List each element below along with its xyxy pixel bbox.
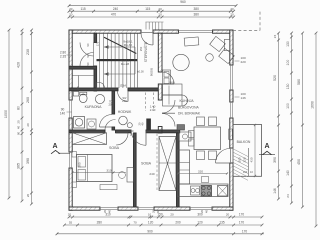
svg-text:KUPAONA: KUPAONA — [85, 105, 103, 109]
svg-text:20: 20 — [26, 194, 30, 198]
svg-text:170: 170 — [242, 229, 248, 233]
svg-text:HODNIK: HODNIK — [118, 110, 132, 114]
svg-text:450: 450 — [297, 159, 301, 165]
svg-text:140: 140 — [60, 112, 66, 116]
svg-text:390: 390 — [273, 157, 277, 163]
svg-text:170: 170 — [239, 221, 245, 225]
svg-text:175: 175 — [76, 86, 80, 91]
svg-text:200: 200 — [175, 221, 181, 225]
svg-text:70: 70 — [133, 221, 137, 225]
svg-text:20: 20 — [69, 13, 73, 17]
svg-text:260: 260 — [26, 97, 30, 103]
svg-text:170: 170 — [239, 213, 245, 217]
svg-text:280: 280 — [78, 162, 82, 167]
svg-text:BALKON: BALKON — [237, 140, 251, 144]
svg-text:390: 390 — [26, 158, 30, 164]
svg-text:24: 24 — [273, 35, 277, 39]
svg-text:20: 20 — [26, 123, 30, 127]
svg-text:360: 360 — [238, 157, 242, 162]
svg-text:310: 310 — [106, 169, 111, 173]
svg-text:200: 200 — [122, 99, 127, 103]
svg-text:BLAGOVONA: BLAGOVONA — [178, 106, 200, 110]
svg-text:240: 240 — [149, 172, 154, 176]
svg-text:80: 80 — [17, 106, 21, 110]
svg-text:310: 310 — [105, 213, 111, 217]
svg-text:DN. BORAVAK: DN. BORAVAK — [178, 112, 201, 116]
svg-text:120: 120 — [197, 221, 203, 225]
svg-text:90: 90 — [17, 132, 21, 136]
svg-text:2.00: 2.00 — [150, 108, 156, 112]
svg-text:100: 100 — [286, 60, 290, 66]
svg-text:20: 20 — [170, 213, 174, 217]
svg-text:IZBA: IZBA — [120, 84, 126, 88]
svg-text:420: 420 — [17, 62, 21, 68]
svg-text:90/205: 90/205 — [150, 67, 154, 76]
svg-text:40: 40 — [17, 126, 21, 130]
svg-text:20: 20 — [17, 120, 21, 124]
svg-text:20: 20 — [226, 213, 230, 217]
svg-text:SOBA: SOBA — [109, 146, 120, 150]
svg-text:146: 146 — [273, 188, 277, 194]
svg-text:10: 10 — [148, 213, 152, 217]
svg-text:115: 115 — [145, 7, 150, 11]
svg-text:Ru.28: Ru.28 — [121, 62, 130, 66]
svg-text:135: 135 — [219, 221, 225, 225]
svg-text:1690: 1690 — [311, 101, 315, 109]
svg-text:130: 130 — [286, 83, 290, 89]
svg-text:175: 175 — [96, 41, 100, 46]
svg-text:20: 20 — [230, 13, 234, 17]
svg-text:960: 960 — [169, 81, 174, 85]
svg-text:100: 100 — [286, 103, 290, 109]
svg-text:2.35: 2.35 — [60, 55, 66, 59]
svg-text:A: A — [264, 143, 269, 150]
svg-text:900: 900 — [147, 229, 153, 233]
svg-text:280: 280 — [97, 221, 103, 225]
svg-text:300: 300 — [197, 213, 203, 217]
svg-text:250: 250 — [139, 46, 143, 51]
svg-text:20: 20 — [69, 7, 73, 11]
svg-text:KUHINJA: KUHINJA — [180, 99, 195, 103]
svg-text:24: 24 — [286, 194, 290, 198]
svg-text:1000: 1000 — [4, 110, 8, 118]
svg-text:130: 130 — [286, 41, 290, 47]
svg-text:380: 380 — [194, 7, 200, 11]
svg-text:20: 20 — [158, 13, 162, 17]
svg-text:55: 55 — [69, 221, 73, 225]
svg-text:220: 220 — [241, 60, 246, 64]
svg-text:320: 320 — [198, 169, 203, 173]
svg-text:Ru.30: Ru.30 — [124, 43, 133, 47]
svg-text:470: 470 — [111, 13, 117, 17]
svg-text:520: 520 — [273, 75, 277, 81]
svg-text:115: 115 — [81, 7, 86, 11]
svg-text:20: 20 — [158, 7, 162, 11]
svg-text:20: 20 — [68, 213, 72, 217]
svg-text:20: 20 — [230, 7, 234, 11]
svg-text:STEPENIŠTE: STEPENIŠTE — [143, 41, 148, 62]
svg-text:140: 140 — [286, 170, 290, 176]
svg-text:SOBA: SOBA — [141, 162, 152, 166]
svg-text:120: 120 — [148, 221, 154, 225]
svg-text:200: 200 — [108, 103, 113, 107]
svg-text:365: 365 — [17, 163, 21, 169]
svg-text:960: 960 — [180, 0, 186, 4]
svg-text:230: 230 — [26, 49, 30, 55]
svg-text:580: 580 — [297, 79, 301, 85]
svg-text:160: 160 — [243, 170, 248, 174]
svg-text:A: A — [52, 143, 57, 150]
svg-text:430: 430 — [250, 157, 254, 162]
svg-text:150: 150 — [157, 213, 163, 217]
svg-text:20: 20 — [152, 210, 156, 213]
svg-text:40: 40 — [204, 210, 208, 213]
svg-text:205: 205 — [130, 132, 135, 136]
svg-text:240: 240 — [113, 7, 119, 11]
svg-text:±0,00: ±0,00 — [137, 70, 144, 74]
svg-text:380: 380 — [194, 13, 200, 17]
svg-text:320: 320 — [243, 157, 247, 162]
svg-text:146: 146 — [241, 96, 246, 100]
